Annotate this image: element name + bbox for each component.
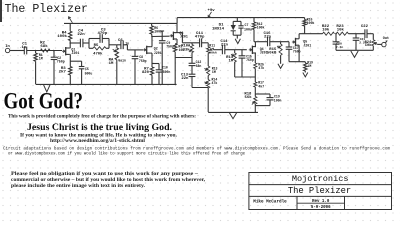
svg-text:C22: C22 <box>361 25 369 29</box>
resistor R12 100k <box>252 18 264 42</box>
wire C1 to gate Q1 <box>27 50 62 52</box>
svg-text:please include the entire imag: please include the entire image with tex… <box>11 183 146 189</box>
svg-text:4k7: 4k7 <box>258 84 264 88</box>
svg-text:22n: 22n <box>77 33 85 37</box>
title block rev <box>312 200 330 204</box>
node +9v label <box>208 9 216 17</box>
svg-text:1M: 1M <box>109 62 114 66</box>
wire R14 to ground rail <box>207 88 209 112</box>
ground bottom middle <box>229 113 237 119</box>
svg-text:Circuit adaptations based on d: Circuit adaptations based on design cont… <box>3 147 390 152</box>
svg-text:R11: R11 <box>209 43 215 47</box>
wire mid ground bus <box>235 76 256 78</box>
capacitor C7 100u <box>238 21 252 35</box>
wire C14 to Q4 gate <box>225 49 247 51</box>
capacitor C1 .1u <box>19 42 27 54</box>
capacitor C12 68n <box>189 60 202 74</box>
svg-text:22n: 22n <box>264 36 272 40</box>
potentiometer RA 1M Gain <box>109 45 126 84</box>
title text The Plexizer <box>5 3 89 16</box>
svg-text:10k: 10k <box>365 43 372 48</box>
wire Q4 source riser <box>254 53 257 63</box>
capacitor C22 <box>361 25 369 38</box>
resistor R16 100k <box>303 18 315 34</box>
svg-text:1M: 1M <box>307 64 311 68</box>
svg-text:Q2: Q2 <box>154 46 158 50</box>
svg-text:750p: 750p <box>246 58 254 62</box>
title block date <box>311 206 331 210</box>
wire Q3 drain riser <box>176 23 178 32</box>
svg-text:Got God?: Got God? <box>4 89 84 115</box>
capacitor C14 22n <box>220 40 228 54</box>
svg-text:C5: C5 <box>85 67 89 71</box>
svg-text:50kA: 50kA <box>209 51 217 55</box>
capacitor C21 2.2n <box>353 34 367 51</box>
svg-text:22n: 22n <box>181 77 189 81</box>
wire Q5 drain riser <box>298 34 300 39</box>
capacitor C13 22n <box>181 73 195 87</box>
wire +9V rail left segment <box>64 22 177 24</box>
capacitor C17 750p <box>286 42 301 62</box>
svg-text:http://www.needhim.org/a/1-sti: http://www.needhim.org/a/1-stick.shtml <box>50 139 146 144</box>
node C20 junction <box>335 33 337 35</box>
svg-text:Please feel no obligation if y: Please feel no obligation if you want to… <box>11 171 198 177</box>
wire R18 to ground rail <box>254 104 256 112</box>
message line 3 <box>20 134 178 139</box>
svg-text:C6: C6 <box>118 39 123 43</box>
wire Q2 drain to Q3 gate <box>152 35 170 37</box>
resistor R25 47k <box>254 62 265 82</box>
ground R19 <box>303 73 308 77</box>
ground R15 <box>278 64 283 69</box>
node In label <box>5 45 10 49</box>
svg-text:50kB: 50kB <box>267 51 277 56</box>
svg-text:R5: R5 <box>94 44 99 48</box>
resistor R5 470k <box>89 44 109 56</box>
svg-text:33k: 33k <box>183 47 191 52</box>
wire C6 to Q2 gate <box>123 45 143 50</box>
wire Q1 source riser <box>69 54 70 66</box>
wire Q4 drain out <box>255 41 267 43</box>
svg-text:100k: 100k <box>257 25 265 29</box>
svg-text:47k: 47k <box>258 66 264 70</box>
potentiometer R18 56k <box>244 93 257 105</box>
wire combo left edge <box>88 39 90 49</box>
svg-text:J201: J201 <box>180 35 188 39</box>
wire rail step <box>176 18 178 24</box>
wire R11 wiper out <box>213 48 222 49</box>
svg-text:22n: 22n <box>221 43 229 47</box>
wire stage1 ground rail <box>36 83 177 85</box>
wire R23 to C22 <box>348 33 365 35</box>
jack J1 input <box>5 48 9 52</box>
svg-text:470p: 470p <box>97 32 107 36</box>
svg-text:J201: J201 <box>303 43 311 47</box>
potentiometer R13 1M <box>204 66 217 76</box>
capacitor C8 750p <box>132 50 147 84</box>
credits line 2 <box>8 152 246 157</box>
transistor Q4 J201 <box>249 46 268 55</box>
svg-text:If you want to know the meanin: If you want to know the meaning of life,… <box>20 134 178 139</box>
svg-text:Mojotronics: Mojotronics <box>292 174 349 184</box>
ground stage1 <box>44 85 50 92</box>
resistor R4 100k <box>57 23 72 40</box>
svg-text:J201: J201 <box>154 51 162 55</box>
capacitor C15 750p <box>239 50 254 77</box>
wire combo to gain pot <box>109 44 117 46</box>
svg-text:Mike McCardle: Mike McCardle <box>253 200 287 205</box>
wire output node <box>299 33 322 35</box>
resistor R7 820 <box>142 67 154 84</box>
svg-text:470k: 470k <box>93 52 103 57</box>
svg-text:47k: 47k <box>212 81 218 85</box>
wire combo right edge <box>108 39 110 49</box>
title block company Mojotronics <box>292 174 349 184</box>
wire bottom ground rail <box>208 111 258 113</box>
node Q2 drain <box>151 36 153 38</box>
wire C17 bottom to R19 <box>289 61 305 63</box>
wire Q3 source riser <box>175 39 177 44</box>
resistor R3 2k7 <box>59 67 72 85</box>
svg-text:470p: 470p <box>195 36 205 40</box>
capacitor C2 750p <box>51 51 65 85</box>
wire output filter ground rail <box>336 49 373 51</box>
resistor R6 100k <box>150 23 162 36</box>
svg-text:The Plexizer: The Plexizer <box>5 3 89 16</box>
capacitor C6 1n <box>117 39 129 49</box>
wire Q5 source riser <box>298 45 300 62</box>
title block name The Plexizer <box>288 186 351 196</box>
capacitor C11 470p <box>195 32 205 47</box>
svg-text:5-9-2006: 5-9-2006 <box>311 206 331 210</box>
svg-text:100k: 100k <box>57 34 67 39</box>
wire C11 feed <box>182 42 199 44</box>
wire C16 to node <box>270 41 289 43</box>
headline Got God? <box>4 89 84 115</box>
wire Q4 drain riser <box>254 42 257 47</box>
diode D1 1N914 <box>212 21 236 35</box>
svg-text:Out: Out <box>383 37 389 41</box>
ground power filter <box>235 39 240 44</box>
svg-text:100u: 100u <box>244 28 252 32</box>
wire +9V rail right segment <box>177 17 305 19</box>
svg-text:C10: C10 <box>162 66 168 70</box>
svg-text:820: 820 <box>142 71 150 75</box>
resistor R17 4k7 <box>254 81 265 97</box>
wire wiper to jack <box>377 43 381 45</box>
svg-text:10k: 10k <box>337 27 345 32</box>
resistor R9 10k <box>174 44 185 84</box>
wire input to C1 <box>10 50 24 52</box>
node junction C2 <box>53 50 55 52</box>
wire power filter drop <box>233 18 241 22</box>
message line 4 url <box>50 139 146 144</box>
svg-text:750p: 750p <box>166 45 174 49</box>
svg-text:750p: 750p <box>57 59 65 63</box>
svg-text:commercial or otherwise – but: commercial or otherwise – but if you wou… <box>11 177 206 183</box>
wire C4 to combo <box>83 42 89 44</box>
obligation paragraph <box>11 171 206 189</box>
svg-text:56k: 56k <box>245 95 253 100</box>
svg-text:1M: 1M <box>39 57 43 61</box>
message line 2 Jesus <box>27 123 172 133</box>
svg-text:10k: 10k <box>322 27 330 32</box>
jack J2 output <box>382 37 389 47</box>
svg-text:1M: 1M <box>212 70 216 74</box>
potentiometer R11 50kA <box>207 43 217 66</box>
svg-text:750p: 750p <box>139 59 147 63</box>
wire power filter join <box>233 35 241 38</box>
svg-text:2.2n: 2.2n <box>336 45 344 49</box>
svg-text:J201: J201 <box>71 51 79 55</box>
svg-text:Rev 1.0: Rev 1.0 <box>312 200 330 204</box>
resistor R23 10k <box>336 25 348 35</box>
potentiometer R13 1M mid <box>226 50 236 77</box>
node Q1 drain tap <box>69 42 71 44</box>
capacitor C9 750p <box>159 31 174 84</box>
svg-text:68k: 68k <box>40 44 48 49</box>
wire source bypass branch <box>175 57 192 59</box>
svg-text:500n: 500n <box>163 70 171 74</box>
power arrow left rail <box>69 17 73 23</box>
svg-text:C7: C7 <box>245 23 249 27</box>
svg-text:500u: 500u <box>85 71 93 75</box>
wire Q1 drain riser <box>68 41 71 49</box>
credits line 1 <box>3 147 390 152</box>
wire C11 to R11 <box>202 43 209 47</box>
title block frame <box>249 173 392 210</box>
svg-text:Jesus Christ is the true livin: Jesus Christ is the true living God. <box>27 123 172 133</box>
wire Q2 drain riser <box>150 37 152 47</box>
svg-text:Gain: Gain <box>118 59 126 63</box>
capacitor C20 2.2n <box>333 34 344 51</box>
title block author Mike McCardle <box>253 200 287 205</box>
transistor Q3 J201 <box>170 31 188 40</box>
capacitor C3 470p <box>89 29 109 43</box>
svg-text:.1u: .1u <box>19 46 26 50</box>
svg-text:or www.diystompboxes.com if yo: or www.diystompboxes.com if you would li… <box>8 152 246 157</box>
capacitor C16 22n <box>263 32 271 46</box>
resistor R2 68k <box>40 42 50 52</box>
svg-text:This work is provided complete: This work is provided completely free of… <box>8 115 196 120</box>
potentiometer R10A 33k <box>181 43 193 64</box>
transistor Q5 J201 <box>292 38 311 48</box>
svg-text:1N914: 1N914 <box>212 27 225 31</box>
svg-text:1M: 1M <box>228 60 233 64</box>
potentiometer R14 47k <box>204 76 217 89</box>
resistor R22 10k <box>322 25 335 35</box>
capacitor C10 500n bypass <box>152 64 170 85</box>
transistor Q2 J201 <box>143 46 162 55</box>
svg-text:100n: 100n <box>274 98 282 102</box>
svg-text:2k7: 2k7 <box>59 70 67 75</box>
wire presence tap <box>192 87 208 89</box>
potentiometer R15 50kB <box>267 42 282 64</box>
wire C22 to pot <box>367 34 373 40</box>
capacitor C4 22n <box>70 29 85 47</box>
node junction R1 <box>35 50 37 52</box>
wire Q3 drain jog <box>177 33 182 43</box>
capacitor C19 100n <box>255 94 281 106</box>
capacitor C5 500u bypass <box>70 61 92 84</box>
wire Q2 source riser <box>150 53 152 67</box>
potentiometer R24 volume <box>365 40 378 51</box>
svg-text:68n: 68n <box>196 64 202 68</box>
message line 1 <box>8 115 196 120</box>
resistor R1 1M <box>34 51 43 85</box>
svg-text:100k: 100k <box>307 21 315 25</box>
ground output filter <box>351 51 358 57</box>
transistor Q1 J201 <box>62 47 79 55</box>
svg-text:The Plexizer: The Plexizer <box>288 186 351 196</box>
resistor R19 1M <box>304 60 313 72</box>
